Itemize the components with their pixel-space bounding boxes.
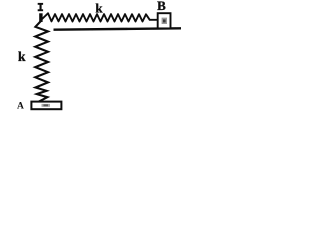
svg-text:k: k [95,1,103,16]
svg-text:k: k [18,49,26,64]
svg-text:B: B [157,0,166,13]
svg-text:A: A [17,101,24,111]
